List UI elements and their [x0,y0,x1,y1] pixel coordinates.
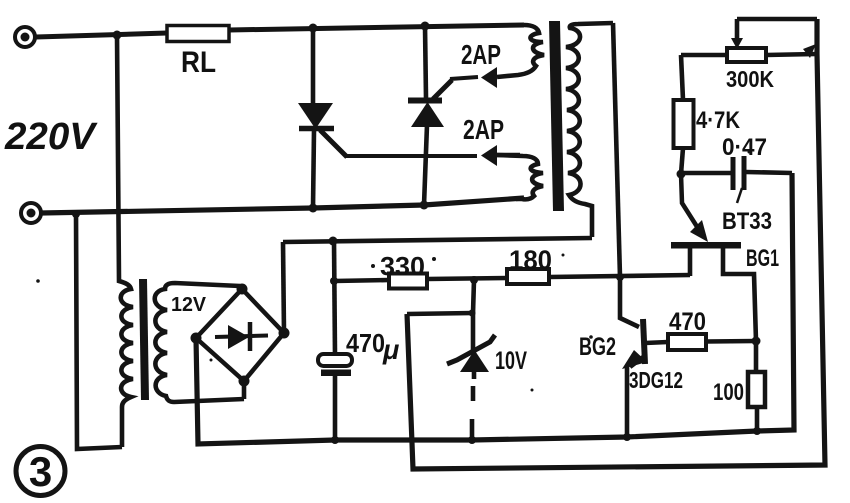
svg-text:300K: 300K [726,66,774,92]
svg-text:BG1: BG1 [746,245,779,272]
svg-text:220V: 220V [4,116,98,158]
svg-text:100: 100 [713,379,744,406]
svg-text:330: 330 [380,251,425,281]
svg-text:3: 3 [29,448,52,495]
svg-text:BT33: BT33 [722,208,772,235]
svg-text:470: 470 [669,308,706,336]
svg-text:180: 180 [509,245,552,275]
svg-text:0·47: 0·47 [722,134,767,161]
svg-text:μ: μ [382,335,399,365]
svg-text:2AP: 2AP [461,39,501,70]
svg-text:10V: 10V [495,347,527,375]
svg-text:3DG12: 3DG12 [629,367,683,393]
svg-text:RL: RL [181,46,216,79]
svg-text:470: 470 [346,328,385,358]
svg-text:12V: 12V [171,294,207,316]
svg-text:2AP: 2AP [463,114,504,145]
svg-text:4·7K: 4·7K [696,107,741,134]
svg-text:BG2: BG2 [579,333,616,361]
